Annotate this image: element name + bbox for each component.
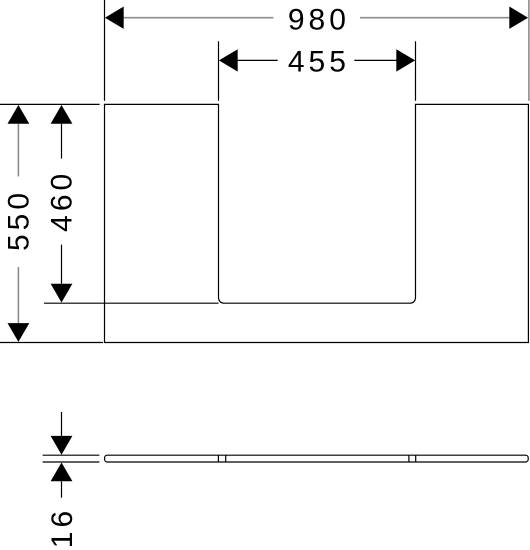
- arrow left 980: [105, 7, 124, 29]
- arrow up 16: [51, 463, 73, 482]
- arrow right 980: [509, 7, 528, 29]
- extension line right of 455 (x=415.5): [415, 41, 417, 101]
- dimension line 16 lower: [61, 481, 63, 497]
- top view outline (plate with cutout): [105, 104, 529, 342]
- arrow top 460: [51, 105, 73, 124]
- dimension line 460: [61, 124, 63, 159]
- extension line left of 455 (x=218.5): [218, 41, 220, 101]
- extension line top of 16 (y=455.2): [43, 454, 100, 456]
- svg-text:460: 460: [46, 170, 79, 232]
- arrow left 455: [219, 49, 238, 71]
- side view divider line 4: [415, 455, 417, 462]
- arrow top 550: [8, 105, 30, 124]
- arrow bottom 550: [8, 323, 30, 342]
- arrow right 455: [396, 49, 415, 71]
- dimension line 550 (gray): [17, 124, 19, 177]
- wire: [354, 59, 397, 61]
- svg-text:455: 455: [288, 45, 350, 78]
- extension line bottom of 16 (y=462.0): [43, 461, 100, 463]
- arrow down 16: [51, 436, 73, 455]
- svg-text:980: 980: [288, 4, 350, 37]
- svg-text:550: 550: [3, 189, 36, 251]
- extension line bottom for 550 (y=342.5): [0, 342, 103, 344]
- side view plate outline: [105, 455, 529, 462]
- dimension line 455: [237, 59, 278, 61]
- extension line for 460 at cutout bottom (y=303.2): [44, 302, 219, 304]
- arrow bottom 460: [51, 284, 73, 303]
- extension line left of 980 (x=104.5): [104, 0, 106, 101]
- extension line right of 980 (x=528.9, gray): [528, 0, 530, 101]
- side view divider line 1: [217, 455, 219, 462]
- extension line top for 550/460 (y=104.4): [0, 103, 100, 105]
- wire: [17, 267, 19, 323]
- dimension line 980 (gray): [124, 17, 274, 19]
- wire: [360, 17, 509, 19]
- side view divider line 2: [225, 455, 227, 462]
- side view divider line 3: [408, 455, 410, 462]
- svg-text:16: 16: [46, 507, 79, 548]
- dimension line 16 upper: [61, 412, 63, 436]
- wire: [61, 245, 63, 284]
